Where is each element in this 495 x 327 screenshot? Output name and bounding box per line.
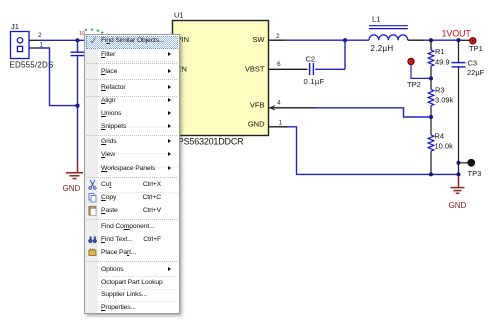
capacitor C2	[310, 63, 314, 75]
svg-text:L1: L1	[372, 15, 380, 24]
connector J1 body	[11, 32, 30, 59]
node R3/R4/VFB junction	[429, 115, 433, 119]
wire J1 pin1 to GND net	[38, 48, 78, 106]
svg-text:TP1: TP1	[469, 44, 483, 53]
wire C2 right	[315, 68, 345, 70]
L1 right stub	[408, 39, 424, 41]
wire SW net	[285, 39, 369, 41]
svg-text:1VOUT: 1VOUT	[442, 29, 472, 39]
svg-text:2: 2	[38, 32, 42, 39]
pin GND stub	[269, 126, 288, 128]
svg-text:3.09k: 3.09k	[435, 96, 454, 105]
green selection crosses	[85, 28, 104, 33]
op-amp U1 body	[173, 21, 269, 136]
highlight row text	[101, 34, 177, 47]
node SW/C2 junction	[343, 38, 347, 42]
test point TP3	[467, 159, 475, 167]
svg-text:TP2: TP2	[407, 80, 421, 89]
pin VFB input arrow	[270, 106, 275, 110]
wire C1 top stem	[77, 40, 79, 51]
icon: paste clipboard	[87, 205, 98, 216]
node VOUT/R1 junction	[429, 38, 433, 42]
svg-text:GND: GND	[248, 120, 265, 129]
svg-text:SW: SW	[252, 35, 265, 44]
wire VIN from J1 pin2 to U1	[38, 39, 87, 41]
svg-text:U1: U1	[174, 11, 184, 20]
svg-text:R1: R1	[435, 47, 445, 56]
svg-text:0.1µF: 0.1µF	[304, 77, 325, 86]
test point TP1	[470, 38, 476, 44]
inductor L1	[369, 26, 408, 41]
capacitor C3	[452, 63, 466, 67]
R1-R3 link	[430, 66, 432, 89]
node VOUT/C3 junction	[456, 38, 460, 42]
pin VBST stub	[269, 68, 308, 70]
pin VFB stub	[269, 107, 317, 109]
highlight row	[86, 36, 178, 49]
svg-text:ED555/2DS: ED555/2DS	[10, 61, 54, 70]
R4 bottom link	[430, 151, 432, 174]
wire C1 bottom stem	[77, 56, 79, 105]
TP2 wire	[411, 65, 431, 79]
icon: cut scissors	[87, 179, 98, 190]
svg-text:6: 6	[277, 61, 281, 68]
TP3 stub	[459, 162, 468, 164]
R1 top link	[430, 40, 432, 50]
node TP3 junction	[457, 161, 461, 165]
svg-text:C3: C3	[468, 59, 478, 68]
node R4 bottom junction	[429, 172, 433, 176]
svg-text:22µF: 22µF	[467, 68, 485, 77]
svg-text:C2: C2	[306, 54, 316, 63]
wire VOUT net	[424, 39, 462, 41]
svg-text:R3: R3	[435, 86, 445, 95]
ground GND left	[66, 161, 83, 179]
svg-text:4: 4	[277, 100, 281, 107]
wire GND stem left	[77, 106, 79, 161]
node C1 bottom junction	[75, 104, 79, 108]
icon: find similar check	[87, 35, 98, 46]
svg-text:GND: GND	[63, 184, 81, 193]
wire VFB net	[316, 108, 431, 117]
svg-text:TPS563201DDCR: TPS563201DDCR	[173, 137, 245, 147]
resistor R3	[428, 90, 434, 106]
TP1 stub	[462, 39, 470, 41]
R3-R4 link	[430, 106, 432, 135]
svg-text:J1: J1	[11, 22, 19, 31]
svg-text:R4: R4	[435, 132, 445, 141]
svg-text:TP3: TP3	[468, 169, 482, 178]
C3 bottom link	[458, 68, 460, 175]
ground GND right	[451, 176, 465, 193]
icon: place part	[87, 247, 98, 258]
capacitor C1	[71, 52, 85, 55]
C3 top link	[458, 41, 460, 62]
wire U1 GND pin net	[288, 127, 459, 175]
svg-text:2: 2	[276, 33, 280, 40]
node VIN/C1 junction	[75, 38, 79, 42]
svg-text:49.9: 49.9	[435, 58, 450, 67]
svg-text:1: 1	[279, 120, 283, 127]
node R1/R3/TP2 junction	[429, 76, 433, 80]
icon: copy pages	[87, 192, 98, 203]
context menu	[84, 34, 180, 314]
svg-text:VFB: VFB	[250, 101, 265, 110]
pin SW stub	[269, 39, 286, 41]
svg-text:GND: GND	[449, 201, 467, 210]
svg-text:2.2µH: 2.2µH	[371, 44, 394, 53]
J1 pin 1 stub	[29, 47, 38, 49]
svg-text:10.0k: 10.0k	[435, 142, 454, 151]
svg-text:VBST: VBST	[245, 64, 265, 73]
resistor R4	[428, 135, 434, 151]
J1 pin 2 stub	[29, 39, 38, 41]
icon: find text binoculars	[87, 234, 98, 245]
wire C2 branch vertical	[344, 40, 346, 69]
resistor R1	[428, 50, 434, 66]
node GND/C3 bottom junction	[457, 172, 461, 176]
test point TP2	[408, 58, 414, 64]
